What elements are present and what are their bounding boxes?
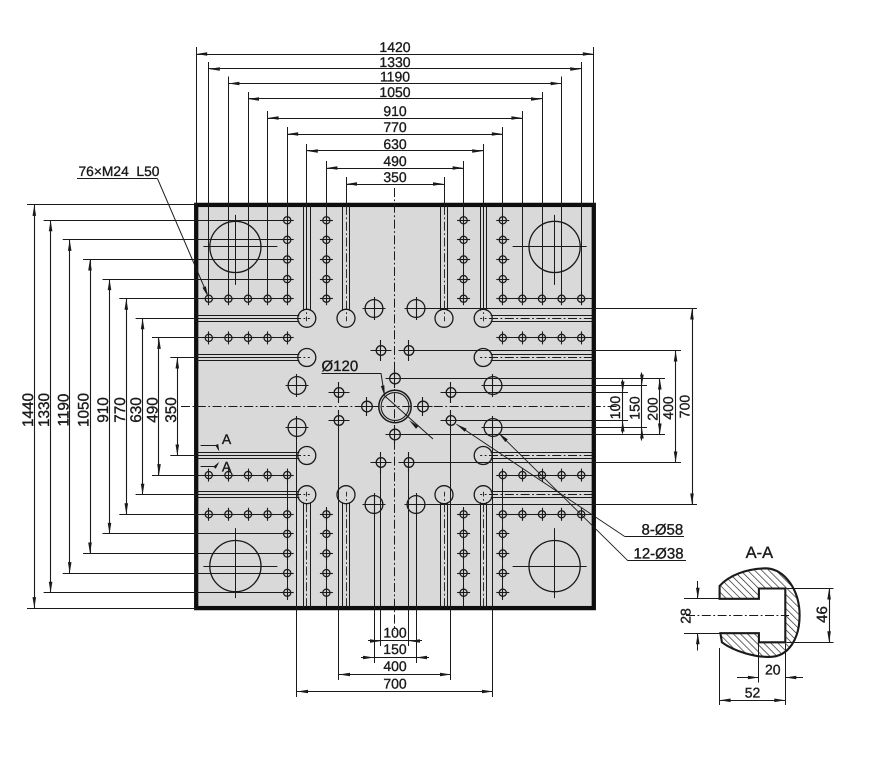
svg-text:1190: 1190 (380, 68, 410, 84)
svg-text:150: 150 (383, 641, 407, 657)
svg-text:46: 46 (814, 606, 831, 623)
svg-text:76×M24 L50: 76×M24 L50 (78, 164, 159, 179)
svg-text:200: 200 (644, 397, 660, 421)
svg-text:150: 150 (627, 396, 643, 420)
svg-text:100: 100 (607, 396, 623, 420)
svg-text:A: A (222, 431, 232, 447)
svg-text:490: 490 (383, 153, 407, 169)
svg-text:52: 52 (745, 684, 761, 700)
svg-text:20: 20 (765, 661, 781, 677)
svg-text:1190: 1190 (55, 394, 72, 427)
svg-text:1050: 1050 (379, 84, 410, 100)
svg-text:8-Ø58: 8-Ø58 (641, 522, 683, 539)
svg-text:770: 770 (383, 119, 407, 135)
svg-text:350: 350 (163, 397, 180, 423)
svg-text:1440: 1440 (20, 393, 37, 427)
svg-text:400: 400 (383, 658, 407, 674)
svg-text:Ø120: Ø120 (321, 358, 358, 375)
svg-text:12-Ø38: 12-Ø38 (633, 546, 683, 563)
svg-text:770: 770 (112, 397, 129, 423)
svg-text:910: 910 (383, 103, 407, 119)
svg-text:700: 700 (383, 675, 407, 691)
svg-text:630: 630 (383, 136, 407, 152)
svg-text:A-A: A-A (746, 544, 774, 562)
svg-text:28: 28 (678, 608, 694, 624)
svg-text:630: 630 (128, 397, 145, 423)
svg-text:1330: 1330 (36, 393, 53, 427)
svg-text:400: 400 (660, 396, 676, 420)
svg-text:A: A (222, 458, 232, 474)
svg-text:910: 910 (95, 397, 112, 423)
svg-text:100: 100 (383, 624, 407, 640)
svg-text:490: 490 (145, 397, 162, 423)
svg-text:700: 700 (677, 395, 693, 419)
svg-text:350: 350 (383, 169, 407, 185)
svg-text:1420: 1420 (379, 39, 410, 55)
svg-text:1050: 1050 (76, 393, 93, 427)
